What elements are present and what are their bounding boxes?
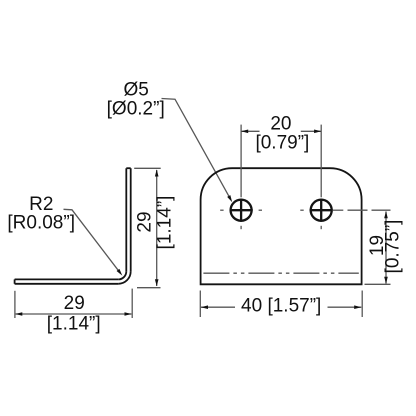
side view: vertical leg inner line: [125, 168, 127, 271]
dimension 29 horizontal: dimension line: [16, 313, 132, 315]
dimension 19: top extension line segment 2: [348, 209, 368, 211]
dimension 40: right extension line: [361, 291, 363, 318]
leader line for bend radius R2: [64, 209, 121, 273]
hole right: [311, 200, 332, 221]
dimension 20: right arrowhead: [314, 130, 321, 134]
side view: bend inner radius arc R2: [118, 271, 126, 279]
leader arrowhead for D5: [227, 195, 232, 202]
svg-text:29: 29: [134, 211, 155, 232]
side view: horizontal leg bottom line: [15, 283, 119, 285]
hole left: horizontal center mark right dash: [259, 209, 262, 211]
dimension 20: left arrowhead: [241, 130, 248, 134]
hole left: [231, 200, 252, 221]
dimension 29 horizontal: left extension line: [14, 291, 16, 318]
svg-text:[1.14”]: [1.14”]: [47, 313, 101, 334]
dimension 29 horizontal: right arrowhead: [125, 312, 132, 316]
dimension 20: dimension line left segment: [241, 130, 259, 132]
svg-text:29: 29: [64, 293, 85, 314]
svg-text:[1.14”]: [1.14”]: [155, 196, 176, 250]
dimension 40: dimension line right segment: [328, 306, 362, 308]
svg-text:Ø5: Ø5: [124, 79, 149, 100]
hole left: vertical diameter line (thick): [240, 199, 242, 222]
hole right: horizontal diameter line (thick): [310, 209, 333, 211]
hole right: horizontal center mark left dash: [300, 209, 303, 211]
side view: top end cap of vertical leg: [126, 167, 130, 169]
front view bend fold line (dash-dot): [203, 272, 358, 274]
dimension 40: dimension line left segment: [201, 306, 235, 308]
front view outline with rounded top corners: [201, 168, 362, 284]
dimension 19: top arrowhead: [384, 211, 388, 218]
dimension 20: left extension line (from left hole up): [240, 125, 242, 198]
side view: vertical leg outer line: [130, 168, 132, 271]
hole left: horizontal diameter line (thick): [230, 209, 253, 211]
dimension 40: left arrowhead: [201, 305, 208, 309]
leader line for hole diameter D5: [162, 99, 231, 199]
dimension 29 vertical: dimension line: [156, 170, 158, 286]
dimension 19: bottom arrowhead: [384, 277, 388, 284]
svg-text:40 [1.57”]: 40 [1.57”]: [241, 295, 321, 316]
dimension 29 vertical: bottom arrowhead: [155, 279, 159, 286]
svg-text:[0.75”]: [0.75”]: [382, 220, 403, 274]
dimension 40: left extension line: [199, 291, 201, 318]
dimension 19: bottom extension line: [365, 283, 391, 285]
dimension 29 horizontal: right extension line: [131, 289, 133, 318]
dimension 19: top extension line segment 1: [333, 209, 344, 211]
dimension 29 vertical: bottom extension line: [137, 287, 161, 289]
dimension 29 horizontal: left arrowhead: [15, 312, 22, 316]
side view: horizontal leg top line: [15, 278, 119, 280]
dimension 20: right extension line (from right hole up): [320, 125, 322, 198]
side view: left end cap of horizontal leg: [14, 279, 16, 283]
dimension 19: top extension line segment 3: [372, 209, 391, 211]
hole right: vertical center mark lower dash: [320, 226, 322, 229]
leader arrowhead for R2: [117, 269, 123, 276]
dimension 29 vertical: top arrowhead: [155, 169, 159, 176]
svg-text:20: 20: [270, 113, 291, 134]
svg-text:[R0.08”]: [R0.08”]: [7, 213, 75, 234]
hole left: horizontal center mark left dash: [220, 209, 223, 211]
svg-text:[Ø0.2”]: [Ø0.2”]: [107, 98, 165, 119]
dimension 40: right arrowhead: [354, 305, 361, 309]
hole right: vertical diameter line (thick): [320, 199, 322, 222]
side view: bend outer radius arc: [118, 271, 130, 283]
dimension 19: dimension line: [385, 212, 387, 284]
svg-text:[0.79”]: [0.79”]: [255, 132, 309, 153]
dimension 29 vertical: top extension line: [134, 167, 161, 169]
dimension 20: dimension line right segment: [301, 130, 321, 132]
hole left: vertical center mark lower dash: [240, 226, 242, 229]
